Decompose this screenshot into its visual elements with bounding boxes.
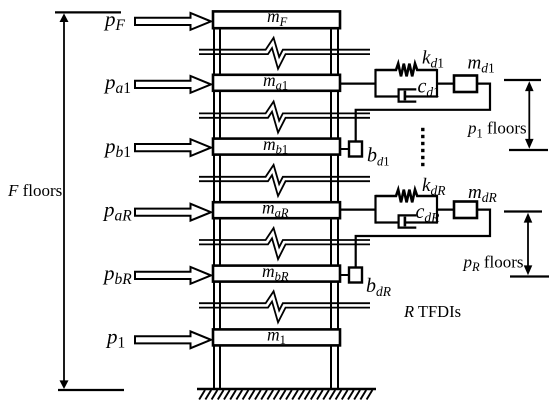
- TFDI 1 : wire to mass: [437, 82, 454, 84]
- TFDI 1 : dashpot c_d1 cup: [399, 89, 417, 101]
- TFDI 1 : tuned mass m_d1: [454, 76, 477, 93]
- TFDI 1 : dashpot c_d1 branch wire: [376, 95, 400, 97]
- TFDI 1 : parallel box right bar: [436, 69, 438, 98]
- floor slab m_1: [213, 329, 340, 345]
- load arrow p_b1: [135, 139, 211, 156]
- TFDI R : dashpot c_dR cup: [399, 215, 417, 227]
- TFDI R : wire to mass: [437, 209, 454, 211]
- TFDI 1 : spring k_d1 branch: [376, 64, 438, 77]
- TFDI 1 : return wire from mass down to inerter: [356, 84, 490, 142]
- dimension line p_1 floors: [504, 80, 548, 150]
- TFDI 1 : dashpot piston: [404, 91, 407, 101]
- story spring k4 (between m_aR and m_bR): [199, 228, 370, 259]
- story spring k2 (between m_a1 and m_b1): [199, 101, 370, 132]
- TFDI R : inerter b_dR: [349, 268, 362, 283]
- vertical ellipsis dots: [421, 128, 424, 166]
- ground line: [197, 388, 376, 390]
- dimension line F floors (left): [55, 12, 124, 390]
- TFDI R : tuned mass m_dR: [454, 202, 477, 219]
- svg-text:p1 floors: p1 floors: [467, 119, 527, 141]
- load arrow p_aR: [135, 204, 211, 221]
- load arrow p_a1: [135, 76, 211, 93]
- TFDI R : input link from m_aR: [340, 209, 376, 211]
- TFDI R : return wire from mass down to inerter: [356, 210, 490, 268]
- right column (double line): [331, 13, 338, 389]
- svg-text:R TFDIs: R TFDIs: [403, 302, 461, 321]
- story spring k1 (between m_F and m_a1): [199, 38, 370, 69]
- floor slab m_b1: [213, 139, 340, 155]
- ground hatching: [199, 390, 372, 400]
- TFDI 1 : parallel box left bar: [374, 69, 376, 98]
- TFDI 1 : input link from m_a1: [340, 82, 376, 84]
- TFDI R : parallel box right bar: [436, 195, 438, 224]
- TFDI 1 : inerter b_d1: [349, 142, 362, 157]
- floor slab m_bR: [213, 266, 340, 282]
- TFDI R : dashpot rod: [405, 221, 437, 223]
- floor slab m_aR: [213, 202, 340, 218]
- svg-text:pR floors: pR floors: [463, 252, 524, 274]
- TFDI R : parallel box left bar: [374, 195, 376, 224]
- load arrow p_bR: [135, 267, 211, 284]
- story spring k5 (between m_bR and m_1): [199, 291, 370, 322]
- dimension line p_R floors: [504, 212, 549, 277]
- TFDI 1 : dashpot rod: [405, 95, 437, 97]
- TFDI R : dashpot piston: [404, 217, 407, 227]
- story spring k3 (between m_b1 and m_aR): [199, 165, 370, 196]
- svg-text:F floors: F floors: [7, 181, 62, 200]
- TFDI R : spring k_dR branch: [376, 190, 438, 203]
- TFDI R : dashpot c_dR branch wire: [376, 221, 400, 223]
- load arrow p_F: [135, 13, 211, 30]
- floor slab m_F: [213, 11, 340, 28]
- TFDI R : inerter stub to column: [339, 274, 349, 276]
- left column (double line): [214, 13, 220, 389]
- floor slab m_a1: [213, 75, 340, 91]
- load arrow p_1: [135, 331, 211, 348]
- TFDI 1 : inerter stub to column: [339, 148, 349, 150]
